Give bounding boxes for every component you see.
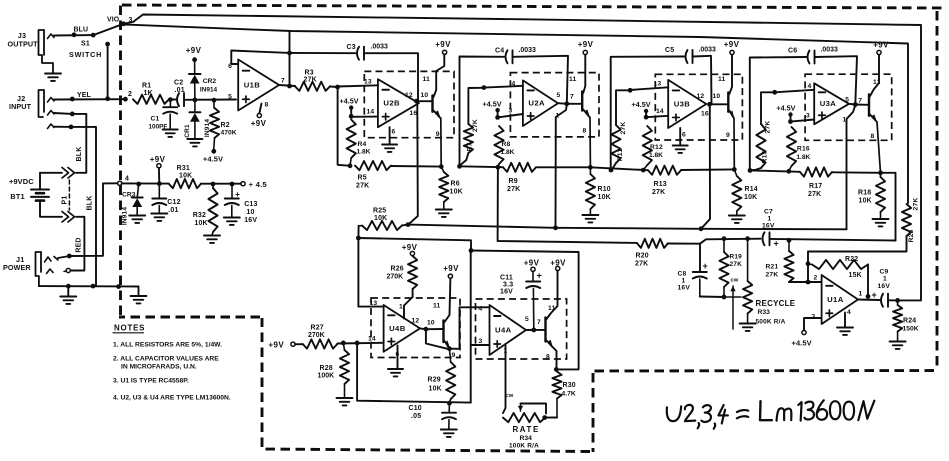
connector P1 dashed link bbox=[68, 180, 70, 210]
junction ground bus at border bbox=[116, 284, 121, 289]
wire J3 tip to switch bbox=[54, 34, 93, 36]
wire R9 line left bbox=[460, 165, 504, 168]
op-amp U1A bbox=[822, 275, 858, 324]
capacitor C5 wire left drop bbox=[611, 57, 684, 171]
terminal +9V R26 bbox=[410, 251, 414, 255]
junction C5-left R11 node bbox=[609, 168, 614, 173]
jack J1 shunt contact bbox=[47, 269, 54, 274]
PCB outline dashed border (lower-right horizontal) bbox=[594, 369, 934, 372]
resistor R24 bbox=[897, 300, 899, 305]
dashed box stage 2 bbox=[510, 73, 599, 137]
switch S1 pole junction bbox=[91, 33, 96, 38]
svg-text:+9V: +9V bbox=[443, 264, 459, 273]
jack J2 tip contact bbox=[48, 98, 55, 103]
wire emitter stage1 bbox=[434, 111, 441, 119]
junction R25 right on bus bbox=[406, 222, 411, 227]
svg-text:C7: C7 bbox=[764, 209, 773, 216]
wire collector stage3 to +9V bbox=[729, 55, 732, 94]
svg-text:3: 3 bbox=[812, 314, 816, 321]
dashed box stage 1 bbox=[364, 71, 454, 137]
terminal +9V U4B collector bbox=[448, 274, 452, 278]
svg-text:+4.5V: +4.5V bbox=[203, 155, 223, 164]
wire LFO output line to corner bbox=[358, 238, 471, 251]
wire +4.5V stage4 stub bbox=[790, 117, 792, 122]
wire U1B output to R3 bbox=[279, 85, 295, 86]
resistor R29 bbox=[449, 349, 450, 362]
svg-text:11: 11 bbox=[422, 76, 430, 83]
svg-text:4: 4 bbox=[125, 176, 129, 183]
transistor Q internal stage1 bar bbox=[431, 96, 433, 112]
jack J2 ring contact bbox=[48, 111, 55, 116]
svg-text:CR2: CR2 bbox=[203, 78, 217, 85]
ground below C10 bbox=[441, 429, 457, 431]
svg-text:8: 8 bbox=[871, 133, 875, 140]
svg-text:P1: P1 bbox=[62, 196, 69, 205]
svg-text:R9: R9 bbox=[509, 178, 518, 185]
terminal +9V R27 bbox=[291, 342, 295, 346]
wire node 4 to +4.5 rail bbox=[122, 182, 169, 184]
jack J2 sleeve contact bbox=[48, 124, 55, 129]
svg-text:R13: R13 bbox=[654, 181, 667, 188]
svg-text:10K: 10K bbox=[179, 173, 192, 180]
junction C13 top bbox=[230, 182, 235, 187]
svg-text:+4.5V: +4.5V bbox=[632, 100, 651, 109]
svg-text:3.3: 3.3 bbox=[503, 282, 513, 289]
svg-text:5: 5 bbox=[228, 94, 232, 101]
junction U4B emitter node bbox=[447, 346, 452, 351]
resistor R11 with top jog bbox=[616, 90, 630, 125]
svg-text:R1: R1 bbox=[142, 83, 151, 90]
wire pin 14 stage3 bbox=[646, 116, 668, 117]
junction C6-left R15 node bbox=[748, 168, 753, 173]
capacitor C12 bbox=[158, 184, 160, 199]
wire R13 to stage3 output node bbox=[681, 168, 734, 171]
svg-text:7: 7 bbox=[281, 78, 285, 85]
svg-text:U3A: U3A bbox=[820, 99, 837, 108]
svg-text:.01: .01 bbox=[175, 87, 185, 94]
capacitor C3 wire right and drop to stage1 output bbox=[365, 53, 419, 101]
ground below C12 bbox=[151, 213, 167, 215]
svg-text:.0033: .0033 bbox=[519, 47, 537, 54]
junction pin3 node stage2 bbox=[495, 115, 500, 120]
wire pin 16 down to LFO bus bbox=[408, 102, 418, 225]
dashed box U4A bbox=[476, 299, 567, 359]
diode CR3 bbox=[132, 197, 143, 199]
connector J3 OUTPUT jack bbox=[39, 30, 54, 73]
wire J2 ring to P1 (BLK) bbox=[54, 113, 86, 173]
resistor R13 bbox=[648, 166, 681, 175]
svg-text:POWER: POWER bbox=[3, 263, 31, 272]
op-amp OTA U4B bbox=[384, 305, 420, 352]
svg-text:BLU: BLU bbox=[74, 27, 89, 34]
terminal +4.5V U1A bbox=[802, 330, 806, 334]
junction stage4 input node bbox=[772, 90, 777, 95]
capacitor C9 bbox=[881, 294, 883, 307]
svg-text:14: 14 bbox=[368, 336, 376, 343]
wire collector stage1 to +9V bbox=[434, 55, 445, 98]
svg-text:16V: 16V bbox=[244, 217, 257, 224]
junction R16 bottom bbox=[786, 169, 791, 174]
terminal +9V stage3 bbox=[730, 50, 734, 54]
wire pin 13 U4B from LFO node bbox=[358, 239, 383, 307]
svg-text:RATE: RATE bbox=[513, 425, 540, 434]
ground below R28 bbox=[337, 397, 353, 399]
svg-text:10: 10 bbox=[421, 92, 429, 99]
junction U4A output node bbox=[531, 328, 536, 333]
svg-text:1: 1 bbox=[859, 291, 863, 298]
wire J2 sleeve to ground bus (BLK) bbox=[54, 127, 96, 286]
capacitor C5 wire right drop bbox=[693, 56, 712, 105]
dashed box stage 4 bbox=[805, 74, 892, 140]
junction C4-left R7 node bbox=[457, 164, 462, 169]
junction R22 right on output bbox=[866, 294, 871, 299]
svg-text:R31: R31 bbox=[177, 165, 190, 172]
svg-text:BLK: BLK bbox=[86, 196, 93, 211]
junction switch wire on input line bbox=[105, 96, 110, 101]
svg-text:RECYCLE: RECYCLE bbox=[756, 299, 796, 308]
wire stage3 input to pin 13 bbox=[630, 87, 668, 90]
switch S1 arm bbox=[93, 24, 123, 35]
svg-text:+9V: +9V bbox=[402, 243, 418, 252]
potentiometer R33 RECYCLE bbox=[747, 239, 749, 281]
dashed box U4B bbox=[371, 298, 460, 358]
svg-text:4: 4 bbox=[512, 81, 516, 88]
capacitor C5 bbox=[686, 50, 688, 63]
svg-text:R14: R14 bbox=[745, 186, 758, 193]
resistor R32 bbox=[212, 184, 214, 188]
junction R29 bottom bbox=[447, 401, 452, 406]
svg-text:C3: C3 bbox=[347, 44, 356, 51]
wire U1B feedback pin6 loop bbox=[231, 51, 289, 65]
ground at bus right end bbox=[138, 287, 140, 296]
junction LFO corner node bbox=[469, 248, 474, 253]
svg-text:C6: C6 bbox=[788, 48, 797, 55]
op-amp OTA U3A bbox=[814, 83, 849, 124]
wire tip to node U4B bbox=[420, 327, 426, 330]
junction stage1 input node bbox=[335, 85, 340, 90]
junction R4 bottom bbox=[348, 163, 353, 168]
junction pin14 node stage3 bbox=[644, 115, 649, 120]
ground stage3 pin6 bbox=[673, 145, 688, 147]
svg-text:U1A: U1A bbox=[827, 295, 844, 304]
wire stage2 input to pin 4 bbox=[484, 86, 523, 88]
svg-text:cw: cw bbox=[731, 278, 739, 284]
svg-text:1.8K: 1.8K bbox=[357, 149, 371, 156]
svg-text:+ 4.5: + 4.5 bbox=[249, 180, 268, 189]
transistor bar U4B bbox=[442, 321, 444, 343]
svg-text:U2A: U2A bbox=[528, 99, 545, 108]
terminal +9V stage4 bbox=[877, 50, 881, 54]
svg-text:27K: 27K bbox=[507, 186, 520, 193]
svg-text:270K: 270K bbox=[387, 274, 404, 281]
svg-text:1K: 1K bbox=[144, 90, 153, 97]
potentiometer R34 RATE bbox=[503, 413, 545, 422]
svg-text:BLK: BLK bbox=[76, 147, 83, 162]
ground below recycle pot bbox=[740, 323, 756, 325]
svg-text:R34: R34 bbox=[520, 435, 533, 442]
junction stage4 output node bottom bbox=[878, 170, 883, 175]
wire pin 1 U4A down to RATE pot bbox=[503, 344, 506, 413]
wire pin 14 stage1 bbox=[351, 116, 378, 118]
svg-text:4.7K: 4.7K bbox=[562, 391, 576, 398]
PCB outline dashed border (bottom horizontal) bbox=[263, 449, 590, 452]
junction pin3 node stage4 bbox=[788, 119, 793, 124]
wire C8 to R19 bottom node bbox=[700, 296, 724, 299]
svg-text:R33: R33 bbox=[758, 309, 771, 316]
capacitor C10 bbox=[448, 403, 450, 412]
wire U4B fold-back to emitter node bbox=[426, 329, 447, 349]
svg-text:270K: 270K bbox=[308, 332, 325, 339]
jack J3 tip contact bbox=[48, 34, 55, 39]
svg-text:3. U1 IS TYPE RC4558P.: 3. U1 IS TYPE RC4558P. bbox=[113, 378, 189, 385]
svg-text:+: + bbox=[235, 189, 240, 199]
svg-text:U1B: U1B bbox=[244, 80, 261, 89]
resistor R5 bbox=[355, 161, 391, 170]
junction pin14 node stage1 bbox=[349, 114, 354, 119]
terminal +4.5V stage1 bbox=[349, 105, 353, 109]
svg-text:R19: R19 bbox=[730, 254, 743, 261]
svg-text:cw: cw bbox=[506, 393, 514, 399]
wire wiper to pot bbox=[724, 296, 741, 298]
svg-text:+9V: +9V bbox=[186, 46, 202, 55]
wire emitter stage4 bbox=[870, 115, 877, 122]
capacitor C6 bbox=[808, 51, 810, 64]
svg-text:+9V: +9V bbox=[578, 40, 594, 49]
ground below CR3 bbox=[129, 215, 145, 217]
junction pot top recycle bbox=[745, 236, 750, 241]
svg-text:4. U2, U3 & U4 ARE TYPE LM1360: 4. U2, U3 & U4 ARE TYPE LM13600N. bbox=[113, 395, 231, 402]
wire battery positive to P1 bbox=[40, 173, 62, 190]
junction stage1 output node top bbox=[414, 99, 419, 104]
svg-text:+4.5V: +4.5V bbox=[340, 97, 359, 106]
svg-text:R7: R7 bbox=[467, 142, 474, 151]
transistor bar stage4 bbox=[868, 95, 870, 116]
resistor R23 bbox=[902, 204, 911, 236]
wire U1A pin 3 to +4.5V bbox=[804, 318, 822, 330]
wire R22 to pin 2 bbox=[807, 264, 809, 282]
svg-text:R26: R26 bbox=[391, 266, 404, 273]
svg-text:C9: C9 bbox=[880, 269, 889, 276]
wire J2 tip to node 2 bbox=[54, 98, 125, 100]
svg-text:3: 3 bbox=[806, 113, 810, 120]
svg-text:+: + bbox=[872, 290, 877, 300]
terminal J1 shunt open circle bbox=[66, 268, 70, 272]
junction R19 top bbox=[722, 236, 727, 241]
svg-text:NOTES: NOTES bbox=[114, 324, 145, 333]
svg-text:R16: R16 bbox=[797, 146, 810, 153]
wire switch throw down to input node bbox=[107, 44, 109, 99]
resistor R19 bbox=[723, 239, 725, 252]
svg-text:16V: 16V bbox=[678, 285, 691, 292]
wire collector U4B to +9V bbox=[445, 278, 451, 322]
svg-text:C4: C4 bbox=[495, 48, 504, 55]
svg-text:.0033: .0033 bbox=[699, 47, 717, 54]
junction ground bus 2 bbox=[91, 284, 96, 289]
wire pin 6 U4B ground stem bbox=[397, 346, 399, 369]
transistor bar U4A bbox=[544, 318, 546, 342]
wire R9 to stage2 output node bbox=[536, 166, 590, 168]
wire base U4B bbox=[426, 328, 443, 330]
svg-text:+4.5V: +4.5V bbox=[792, 339, 812, 348]
svg-text:16V: 16V bbox=[500, 289, 513, 296]
wire pin 6 to ground stage1 bbox=[389, 127, 391, 144]
svg-text:YEL: YEL bbox=[77, 92, 91, 99]
terminal +4.5V stage3 bbox=[644, 109, 648, 113]
ground below R32 bbox=[204, 235, 220, 237]
resistor R25 bbox=[359, 225, 362, 227]
resistor R12 bbox=[643, 126, 652, 165]
svg-text:1: 1 bbox=[768, 216, 772, 223]
wire battery negative to P1 bbox=[40, 201, 62, 217]
terminal +4.5V below R2 bbox=[211, 149, 216, 154]
svg-text:5: 5 bbox=[557, 92, 561, 99]
svg-text:R3: R3 bbox=[305, 70, 314, 77]
resistor R31 bbox=[169, 179, 201, 188]
svg-text:500K R/A: 500K R/A bbox=[756, 319, 786, 326]
svg-text:+9V: +9V bbox=[550, 259, 566, 268]
PCB outline dashed border (middle vertical) bbox=[592, 373, 595, 452]
junction CR3 top bbox=[136, 182, 141, 187]
wire R21 to U1A pin 2 bbox=[789, 281, 822, 283]
svg-text:C11: C11 bbox=[500, 275, 513, 282]
junction stage3 input node bbox=[628, 88, 633, 93]
ground below R24 bbox=[890, 341, 906, 343]
wire R27 to pin 14 U4B bbox=[337, 342, 383, 345]
wire stage4 input to pin 4 bbox=[775, 90, 815, 93]
svg-text:2. ALL CAPACITOR VALUES ARE: 2. ALL CAPACITOR VALUES ARE bbox=[113, 356, 219, 363]
wire U1B pin 8 to +9V bbox=[259, 104, 261, 114]
junction stage2 output node bottom bbox=[588, 165, 593, 170]
svg-text:.0033: .0033 bbox=[371, 44, 389, 51]
ground below CR1 bbox=[187, 138, 202, 140]
terminal +9V stage2 bbox=[583, 50, 587, 54]
svg-text:27K: 27K bbox=[913, 198, 920, 211]
capacitor C6 wire left drop bbox=[750, 57, 806, 170]
svg-text:4: 4 bbox=[808, 83, 812, 90]
ground below C13 bbox=[224, 217, 240, 219]
wire R31 to +4.5 terminal bbox=[201, 183, 241, 185]
wiper arrow recycle pot bbox=[732, 286, 734, 329]
svg-text:13: 13 bbox=[364, 79, 372, 86]
svg-text:6: 6 bbox=[392, 129, 396, 136]
svg-text:R18: R18 bbox=[858, 190, 871, 197]
capacitor C3 bbox=[357, 47, 359, 60]
junction R21 top bbox=[787, 238, 792, 243]
op-amp OTA U3B bbox=[668, 80, 706, 128]
resistor R2 bbox=[213, 100, 215, 108]
wire node 4 line left segment bbox=[103, 182, 118, 184]
svg-text:+4.5V: +4.5V bbox=[776, 104, 795, 113]
junction stage4 output node bbox=[853, 102, 858, 107]
svg-text:+9V: +9V bbox=[251, 119, 267, 128]
svg-text:BT1: BT1 bbox=[10, 192, 24, 201]
junction stage2 input node bbox=[482, 85, 487, 90]
ground stage1 pin6 bbox=[382, 144, 397, 146]
svg-text:IN MICROFARADS, U.N.: IN MICROFARADS, U.N. bbox=[121, 364, 197, 371]
capacitor C13 bbox=[231, 184, 233, 198]
wire C2 to op-amp pin 5 bbox=[185, 99, 237, 101]
ground U4B pin6 bbox=[388, 368, 403, 370]
PCB outline dashed border (right edge) bbox=[936, 11, 939, 368]
svg-text:+9VDC: +9VDC bbox=[9, 177, 34, 186]
capacitor C8 bbox=[693, 271, 707, 273]
svg-text:6: 6 bbox=[682, 132, 686, 139]
terminal +9V U1B pin8 bbox=[257, 113, 261, 117]
svg-text:10: 10 bbox=[427, 320, 435, 327]
svg-text:1: 1 bbox=[399, 304, 403, 311]
svg-text:2: 2 bbox=[128, 91, 132, 98]
svg-text:+: + bbox=[774, 239, 779, 249]
ground below bus left bbox=[67, 286, 69, 296]
svg-text:1.8K: 1.8K bbox=[649, 152, 663, 159]
svg-text:U3B: U3B bbox=[674, 99, 691, 108]
junction on BLU wire bbox=[72, 32, 77, 37]
resistor R9 bbox=[503, 163, 536, 172]
ground below R10 bbox=[582, 214, 598, 216]
svg-text:1.8K: 1.8K bbox=[796, 154, 810, 161]
svg-text:27K: 27K bbox=[356, 183, 369, 190]
capacitor C4 wire left drop bbox=[460, 57, 505, 167]
wire stage4 output to C7 line bbox=[881, 173, 896, 241]
svg-text:R27: R27 bbox=[311, 325, 324, 332]
terminal +9V mid-left bbox=[157, 164, 161, 168]
wire recycle drop from R8 node bbox=[498, 168, 637, 243]
wire LFO bus bbox=[402, 225, 847, 230]
wire +4.5V to pin14 node bbox=[350, 110, 352, 117]
svg-text:R15: R15 bbox=[762, 150, 769, 163]
svg-text:R25: R25 bbox=[373, 208, 386, 215]
svg-text:C8: C8 bbox=[678, 271, 687, 278]
svg-text:1.8K: 1.8K bbox=[501, 149, 515, 156]
junction output node after C9 bbox=[895, 298, 900, 303]
svg-text:27K: 27K bbox=[766, 272, 779, 279]
resistor R6 bbox=[441, 167, 444, 172]
svg-text:27K: 27K bbox=[808, 191, 821, 198]
svg-text:4: 4 bbox=[847, 309, 851, 316]
svg-text:+9V: +9V bbox=[524, 259, 540, 268]
wire line B from node 3 to R23 top bbox=[124, 25, 909, 204]
svg-text:R28: R28 bbox=[320, 365, 333, 372]
svg-text:IN914: IN914 bbox=[200, 87, 218, 94]
svg-text:R4: R4 bbox=[358, 141, 367, 148]
svg-text:10K: 10K bbox=[194, 220, 207, 227]
wire emitter stage2 bbox=[583, 110, 589, 118]
svg-text:14: 14 bbox=[656, 108, 664, 115]
wire +4.5V stage3 stub bbox=[645, 113, 647, 117]
connector J2 INPUT jack bbox=[39, 90, 45, 117]
svg-text:R8: R8 bbox=[502, 141, 511, 148]
wire R5 to stage1 output node bbox=[391, 165, 441, 168]
junction R32 top bbox=[211, 182, 216, 187]
transistor bar stage3 bbox=[727, 93, 729, 112]
resistor R18 bbox=[880, 173, 882, 177]
ground below R14 bbox=[729, 215, 745, 217]
svg-text:U4B: U4B bbox=[389, 324, 406, 333]
svg-text:16V: 16V bbox=[878, 283, 891, 290]
svg-text:CR3: CR3 bbox=[122, 192, 136, 199]
svg-text:.05: .05 bbox=[411, 413, 421, 420]
svg-text:16V: 16V bbox=[762, 223, 775, 230]
svg-text:C2: C2 bbox=[174, 80, 183, 87]
junction R2 top bbox=[212, 98, 217, 103]
wire LFO bus drop at left end bbox=[357, 226, 359, 238]
wire pin 3 stage2 bbox=[498, 114, 523, 117]
svg-text:2: 2 bbox=[814, 275, 818, 282]
svg-text:27K: 27K bbox=[652, 189, 665, 196]
wire R22 right drop bbox=[867, 265, 869, 297]
wire pin 6 to ground stage3 bbox=[679, 128, 681, 145]
capacitor C6 wire right drop bbox=[815, 56, 857, 104]
